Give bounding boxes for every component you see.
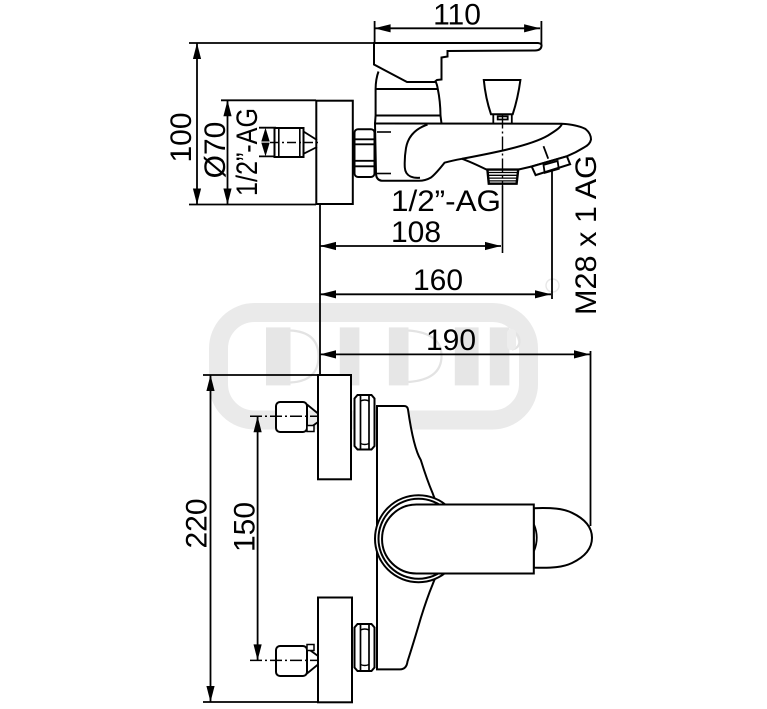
body collar lines right of nut xyxy=(377,131,391,133)
dimension 190 xyxy=(320,350,590,358)
watermark letter i bar xyxy=(340,327,360,385)
centerline top inlet xyxy=(250,415,318,417)
shower outlet M28 block xyxy=(532,156,570,175)
centerline diverter axis lower / 108 extension xyxy=(502,115,504,187)
cartridge dome xyxy=(375,72,379,124)
svg-text:1/2”-AG: 1/2”-AG xyxy=(391,185,501,218)
extension line 100/O70 bottom xyxy=(189,204,316,206)
svg-text:150: 150 xyxy=(229,502,262,552)
svg-text:1/2”-AG: 1/2”-AG xyxy=(231,108,264,196)
top hex nut front view xyxy=(355,395,375,450)
dimension 150 xyxy=(254,416,262,660)
svg-text:100: 100 xyxy=(165,112,198,162)
handle front view xyxy=(382,505,534,574)
extension line 220 top xyxy=(203,374,318,376)
watermark letter D bowl xyxy=(291,331,319,383)
dimension 220 xyxy=(206,375,214,702)
watermark letter B bowl xyxy=(409,331,442,383)
top inlet nut front view xyxy=(276,402,307,432)
extension line 100 top xyxy=(189,42,374,44)
handle rosette inner circle xyxy=(379,499,459,579)
eccentric hex nut side view xyxy=(355,129,375,177)
aerator xyxy=(487,170,518,184)
outlet tick line xyxy=(544,146,549,159)
extension line 190 right xyxy=(590,351,592,526)
M28 leader line / 160 extension xyxy=(551,170,553,299)
body front view xyxy=(377,406,438,669)
watermark letter D stem xyxy=(266,327,291,385)
wall flange top front view xyxy=(318,375,351,479)
watermark logo frame xyxy=(219,313,529,421)
svg-text:160: 160 xyxy=(413,264,463,297)
svg-text:110: 110 xyxy=(433,0,481,32)
small dimension 1/2 pipe arrows xyxy=(261,128,269,157)
spout root curve xyxy=(405,125,428,178)
lever handle side view xyxy=(374,43,542,82)
centerline bottom inlet xyxy=(250,659,318,661)
svg-text:M28 x 1 AG: M28 x 1 AG xyxy=(570,155,603,315)
svg-text:108: 108 xyxy=(391,216,441,249)
svg-text:220: 220 xyxy=(181,498,214,548)
handle end cap front view xyxy=(534,508,592,568)
watermark registered mark xyxy=(546,279,559,292)
diverter knob xyxy=(484,80,521,114)
svg-text:Ø70: Ø70 xyxy=(199,122,232,179)
knob neck xyxy=(493,114,512,123)
handle rosette outer circle xyxy=(375,495,462,582)
svg-text:190: 190 xyxy=(426,324,476,357)
wall flange side view xyxy=(316,101,353,204)
watermark letter E bar2 xyxy=(490,327,510,385)
small dimension 1/2 pipe ext lines xyxy=(259,127,276,129)
faucet body and spout outline xyxy=(375,124,591,181)
inlet pipe side view xyxy=(275,128,304,157)
pipe adapter wedge xyxy=(304,132,318,141)
watermark letter E bar1 xyxy=(455,327,479,385)
spout inner curve xyxy=(462,124,562,159)
wall flange bottom front view xyxy=(318,598,352,703)
wall extension line (108/160/190 left) xyxy=(319,204,321,376)
dimension 108 xyxy=(320,242,501,250)
extension line 110 right xyxy=(540,21,542,45)
dimension 110 xyxy=(375,24,540,32)
extension line 220 bottom xyxy=(203,701,318,703)
dimension 160 xyxy=(320,290,551,298)
watermark letter B stem xyxy=(389,327,409,385)
extension line O70 top xyxy=(221,99,316,101)
extension line 110 left xyxy=(374,21,376,43)
dimension O70 xyxy=(223,100,231,204)
dimension 100 xyxy=(193,43,201,205)
centerline inlet pipe xyxy=(270,142,318,144)
bottom inlet nut front view xyxy=(276,646,307,676)
handle center tick xyxy=(534,525,537,552)
watermark letter E hook xyxy=(509,331,519,350)
bottom hex nut front view xyxy=(355,624,375,671)
